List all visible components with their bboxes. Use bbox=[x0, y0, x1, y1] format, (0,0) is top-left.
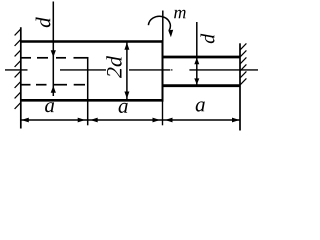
left wall bbox=[20, 27, 22, 128]
d dimension line (left) bbox=[52, 2, 54, 97]
label d (right) bbox=[201, 34, 215, 43]
label m bbox=[174, 10, 186, 19]
small shaft section bottom edge bbox=[163, 84, 241, 87]
a dim arrow at first extension (left side) bbox=[78, 118, 86, 123]
d dimension arrow down (right) bbox=[194, 78, 199, 84]
a dim arrow at first extension (right side) bbox=[90, 118, 98, 123]
label a (second span) bbox=[119, 103, 128, 113]
a dim arrow at step extension (right side) bbox=[165, 118, 173, 123]
large shaft section top edge bbox=[21, 40, 164, 43]
a dim arrow at step extension (left side) bbox=[153, 118, 161, 123]
torque m curved arrow bbox=[148, 16, 170, 30]
left wall hatching bbox=[15, 29, 21, 109]
right wall hatching bbox=[240, 43, 246, 84]
d dimension arrow up (right) bbox=[194, 58, 199, 64]
label d (left) bbox=[36, 17, 51, 27]
label a (third span) bbox=[196, 101, 205, 111]
a dim arrow right end bbox=[232, 118, 240, 123]
d dimension arrow down (left) bbox=[51, 50, 56, 57]
a dim arrow left end bbox=[21, 118, 29, 123]
axis centerline bbox=[5, 69, 258, 71]
label a (first span) bbox=[45, 102, 54, 112]
right wall bbox=[239, 43, 241, 130]
hidden (dashed) bore bottom line bbox=[22, 84, 86, 86]
step line extension above shaft (moment axis) bbox=[162, 11, 164, 41]
label 2d bbox=[106, 56, 121, 78]
step line extension below shaft (dimension extension) bbox=[162, 102, 164, 126]
2d dimension line bbox=[126, 42, 128, 99]
torque arrowhead bbox=[168, 30, 173, 37]
d dimension line (right) bbox=[196, 22, 198, 87]
step face line bbox=[162, 40, 164, 101]
d dimension arrow up (left) bbox=[51, 86, 56, 93]
2d dimension arrow down bbox=[124, 92, 129, 99]
hidden (dashed) bore top line bbox=[22, 57, 89, 59]
small shaft section top edge bbox=[163, 56, 241, 59]
bore end / extension line bbox=[87, 57, 89, 125]
2d dimension arrow up bbox=[124, 43, 129, 50]
large shaft section bottom edge bbox=[21, 99, 164, 102]
a dimension line row bbox=[21, 119, 240, 121]
